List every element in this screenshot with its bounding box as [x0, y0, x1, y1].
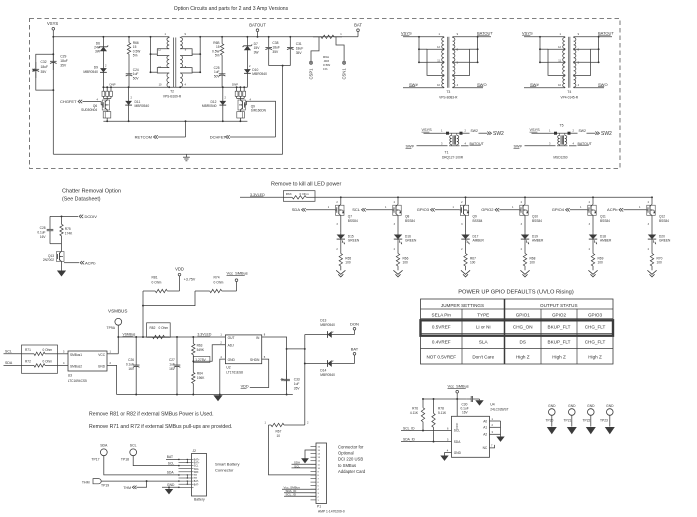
svg-text:GREEN: GREEN	[659, 239, 671, 243]
svg-text:A0: A0	[483, 419, 487, 423]
wire diode node down to R67	[304, 349, 306, 425]
transistor Q12	[650, 204, 652, 206]
diode D9	[102, 54, 104, 67]
wire Q6 source chain	[102, 97, 104, 99]
wire VSMBus line	[118, 336, 225, 338]
svg-text:C29: C29	[60, 55, 66, 59]
svg-text:OUT: OUT	[228, 336, 235, 340]
svg-text:SDA: SDA	[167, 471, 175, 475]
svg-text:CHG_FLT: CHG_FLT	[585, 339, 606, 344]
wire left rail	[52, 37, 54, 154]
svg-text:18uF: 18uF	[41, 65, 49, 69]
LED D20	[651, 216, 653, 233]
svg-text:NOT 0.5VREF: NOT 0.5VREF	[426, 355, 456, 360]
svg-text:24LC02B/ST: 24LC02B/ST	[490, 408, 508, 412]
svg-text:T4: T4	[567, 90, 571, 94]
svg-text:R81: R81	[152, 276, 158, 280]
svg-text:BKUP_FLT: BKUP_FLT	[548, 339, 571, 344]
svg-text:BSS84: BSS84	[600, 219, 610, 223]
svg-text:GND: GND	[228, 358, 236, 362]
svg-text:SCL: SCL	[5, 350, 12, 354]
resistor R67	[465, 241, 467, 251]
svg-text:SDA: SDA	[100, 443, 108, 447]
svg-text:Li or Ni: Li or Ni	[476, 325, 491, 330]
svg-text:100: 100	[657, 261, 663, 265]
capacitor C28	[49, 216, 51, 229]
wire branch Q8 drop	[397, 196, 399, 198]
capacitor C38	[268, 36, 270, 38]
svg-text:BATOUT: BATOUT	[477, 30, 493, 35]
svg-text:50V: 50V	[133, 76, 140, 80]
zener diode D7	[246, 36, 248, 38]
wire U2 SHDN to VDD	[250, 359, 269, 387]
option circuits dashed border box	[30, 19, 621, 169]
svg-text:18uF: 18uF	[60, 59, 68, 63]
svg-text:3.3VLED: 3.3VLED	[250, 193, 265, 197]
wire U3 VCC	[107, 353, 118, 355]
capacitor C26	[135, 336, 137, 338]
svg-text:174K: 174K	[65, 232, 73, 236]
svg-text:P1: P1	[317, 504, 321, 508]
resistor R63 divider top	[192, 336, 194, 338]
svg-text:DNP: DNP	[232, 83, 238, 87]
svg-text:SW2: SW2	[493, 131, 504, 137]
svg-text:GPIO1: GPIO1	[516, 313, 530, 318]
IC U3 LTC1694	[58, 353, 69, 355]
DNP resistor box below Q9	[239, 110, 241, 112]
capacitor C33	[286, 370, 288, 379]
resistor R67 series	[269, 424, 272, 426]
svg-text:High Z: High Z	[516, 355, 530, 360]
IC U4 24LC02B	[452, 416, 490, 457]
wire top rail right	[181, 36, 358, 38]
svg-text:VDD: VDD	[241, 385, 249, 389]
svg-text:VSMBus: VSMBus	[123, 333, 136, 337]
svg-text:TYPE: TYPE	[477, 313, 489, 318]
svg-text:NC: NC	[483, 446, 488, 450]
table highlight thick border row 1	[421, 320, 614, 335]
connector P1	[316, 443, 327, 504]
svg-text:T5: T5	[560, 124, 564, 128]
svg-text:POWER UP GPIO DEFAULTS (UVLO R: POWER UP GPIO DEFAULTS (UVLO Rising)	[458, 290, 574, 296]
svg-text:High Z: High Z	[588, 355, 602, 360]
svg-text:U2: U2	[226, 365, 230, 369]
svg-text:C32: C32	[41, 60, 47, 64]
svg-text:VP4-0145-R: VP4-0145-R	[561, 96, 579, 100]
svg-text:DON: DON	[350, 321, 359, 326]
svg-text:C26: C26	[128, 358, 134, 362]
svg-text:35V: 35V	[272, 50, 279, 54]
svg-text:R67: R67	[276, 430, 282, 434]
transistor Q11	[591, 204, 593, 206]
svg-text:4.11K: 4.11K	[410, 411, 419, 415]
capacitor C25	[221, 62, 223, 70]
wire DCHFET to Q9 gate	[246, 101, 275, 137]
svg-text:CHGFET: CHGFET	[60, 99, 77, 104]
svg-text:SLA: SLA	[479, 339, 489, 344]
node CSN1	[336, 37, 344, 61]
DNP resistor box below Q6	[106, 110, 108, 112]
ground arrow below rail	[213, 395, 222, 401]
svg-text:0.1uF: 0.1uF	[37, 231, 45, 235]
svg-text:R75: R75	[65, 227, 71, 231]
svg-text:SW#: SW#	[514, 144, 523, 148]
svg-text:100: 100	[530, 261, 536, 265]
wire GND rail	[117, 394, 293, 396]
svg-text:1uF: 1uF	[294, 382, 300, 386]
svg-text:BAT: BAT	[351, 346, 359, 351]
svg-text:18uF: 18uF	[296, 47, 304, 51]
svg-text:SW2: SW2	[601, 131, 612, 137]
wire bottom rail	[53, 153, 282, 155]
resistor R63 0 Ohm in box	[283, 191, 315, 202]
wire branch Q11 drop	[592, 196, 594, 198]
table grid	[421, 299, 614, 364]
svg-text:SDA: SDA	[292, 207, 301, 212]
svg-text:0.5VREF: 0.5VREF	[432, 325, 451, 330]
svg-text:GPIO2: GPIO2	[481, 207, 494, 212]
wire branch Q7 drop	[340, 196, 342, 198]
svg-text:SHDN: SHDN	[250, 358, 260, 362]
wire LED rail	[315, 196, 652, 198]
svg-text:SDA: SDA	[454, 440, 461, 444]
svg-text:R76: R76	[412, 407, 418, 411]
svg-text:GND: GND	[606, 404, 614, 408]
svg-text:2N7002: 2N7002	[43, 258, 54, 262]
wire DCDIV node	[50, 215, 78, 217]
svg-text:CHG_ON: CHG_ON	[513, 325, 533, 330]
svg-text:SDA_ID: SDA_ID	[403, 438, 416, 442]
svg-text:100: 100	[403, 261, 409, 265]
wire U4 NC pin	[490, 445, 495, 448]
svg-text:SCL: SCL	[352, 207, 361, 212]
svg-text:ACPb: ACPb	[607, 207, 618, 212]
svg-text:SIR160DN: SIR160DN	[251, 109, 267, 113]
capacitor C31	[289, 36, 291, 38]
svg-text:to SMBus: to SMBus	[338, 463, 356, 468]
wire R81 to VSMBus	[142, 291, 144, 337]
node 1.275V	[193, 356, 210, 362]
svg-text:AMBER: AMBER	[532, 239, 544, 243]
svg-text:U4: U4	[490, 402, 494, 406]
ground arrow below GND wire	[168, 486, 170, 488]
svg-text:35V: 35V	[296, 51, 303, 55]
svg-text:Battery: Battery	[194, 497, 205, 501]
svg-text:J2: J2	[193, 449, 197, 453]
svg-text:THM: THM	[123, 486, 131, 490]
capacitor C30	[466, 398, 471, 400]
svg-text:35V: 35V	[294, 386, 301, 390]
ground below R66	[397, 269, 399, 271]
svg-text:35V: 35V	[41, 70, 48, 74]
svg-text:VSYS: VSYS	[422, 128, 433, 132]
svg-text:SW2: SW2	[579, 129, 586, 133]
resistor R6B	[221, 36, 223, 38]
svg-text:MBR0540: MBR0540	[202, 104, 217, 108]
wire U2 IN	[262, 337, 287, 395]
svg-text:SW2: SW2	[471, 129, 478, 133]
svg-text:DNP: DNP	[110, 83, 116, 87]
svg-text:VSYS: VSYS	[47, 21, 58, 26]
svg-text:0 Ohm: 0 Ohm	[43, 359, 53, 363]
svg-text:CHG_FLT: CHG_FLT	[585, 325, 606, 330]
svg-text:OUTPUT STATUS: OUTPUT STATUS	[540, 303, 578, 308]
svg-text:BAT: BAT	[354, 23, 362, 28]
diode D12	[222, 86, 224, 88]
transistor Q7	[339, 204, 341, 206]
svg-text:R63: R63	[286, 192, 292, 196]
svg-text:GPIO4: GPIO4	[552, 207, 565, 212]
transistor Q10	[523, 204, 525, 206]
svg-text:BSS84: BSS84	[348, 219, 358, 223]
svg-text:VPS-B083-R: VPS-B083-R	[439, 96, 458, 100]
svg-text:R64: R64	[197, 372, 203, 376]
wire U4 GND pin	[445, 453, 452, 456]
svg-text:R78: R78	[438, 407, 444, 411]
svg-text:AMP 1-1470209-0: AMP 1-1470209-0	[318, 509, 345, 513]
svg-text:T1: T1	[445, 151, 449, 155]
svg-text:0 Ohm: 0 Ohm	[152, 281, 162, 285]
svg-text:TP22: TP22	[583, 419, 591, 423]
resistor R64 divider bottom	[192, 361, 194, 372]
svg-text:R63: R63	[197, 344, 203, 348]
svg-text:SCL_ID: SCL_ID	[403, 427, 415, 431]
svg-text:VPS-B169-R: VPS-B169-R	[163, 95, 182, 99]
svg-text:DRQ127-100R: DRQ127-100R	[442, 156, 464, 160]
svg-text:Remove R81 or R82 if external: Remove R81 or R82 if external SMBus Powe…	[89, 412, 214, 418]
svg-text:100: 100	[345, 261, 351, 265]
svg-text:LT1761ES8: LT1761ES8	[226, 370, 243, 374]
svg-text:GND: GND	[167, 483, 175, 487]
resistor R75	[61, 216, 63, 224]
svg-text:BSS84: BSS84	[473, 219, 483, 223]
svg-text:BATOUT: BATOUT	[470, 142, 485, 146]
svg-text:18uF: 18uF	[272, 46, 280, 50]
svg-text:BATOUT: BATOUT	[578, 142, 593, 146]
svg-text:GPIO3: GPIO3	[588, 313, 602, 318]
svg-text:DCHFET: DCHFET	[210, 135, 227, 140]
transformer T2	[150, 36, 152, 38]
svg-text:5%: 5%	[215, 54, 220, 58]
svg-text:Smart Battery: Smart Battery	[215, 461, 239, 466]
svg-text:Addapter Card: Addapter Card	[338, 469, 366, 474]
resistor R66	[128, 36, 130, 38]
svg-text:TH: TH	[194, 475, 197, 477]
node CSP1	[311, 37, 319, 61]
svg-text:SWO: SWO	[598, 82, 608, 87]
capacitor C27	[176, 336, 178, 338]
svg-text:Remove R71 and R72 if external: Remove R71 and R72 if external SMBus pul…	[89, 424, 232, 430]
svg-text:SBX: SBX	[194, 472, 199, 474]
ground below R70	[651, 269, 653, 271]
svg-text:SCL: SCL	[194, 466, 199, 468]
svg-text:AMBER: AMBER	[600, 239, 612, 243]
svg-text:GREEN: GREEN	[348, 239, 360, 243]
resistor R68	[524, 241, 526, 251]
svg-text:Vcc_SMBus: Vcc_SMBus	[227, 270, 248, 275]
diode D14	[304, 363, 306, 365]
svg-text:SELA Pin: SELA Pin	[432, 313, 452, 318]
svg-text:(See Datasheet): (See Datasheet)	[62, 196, 101, 202]
svg-text:DS: DS	[520, 339, 526, 344]
svg-text:R72: R72	[25, 359, 31, 363]
svg-text:BAT+: BAT+	[194, 459, 200, 462]
svg-text:BATOUT: BATOUT	[249, 23, 266, 28]
wire R74 to bus	[143, 291, 195, 306]
svg-text:LTC1694CS5: LTC1694CS5	[68, 379, 87, 383]
svg-text:SDA: SDA	[194, 468, 199, 471]
svg-text:DCDIV: DCDIV	[85, 214, 98, 219]
svg-text:Optional: Optional	[338, 451, 354, 456]
svg-text:SCL: SCL	[130, 443, 137, 447]
svg-text:R82: R82	[150, 326, 156, 330]
wire top rail left	[53, 36, 169, 38]
wire ADJ to divider	[193, 345, 225, 362]
wire branch Q10 drop	[524, 196, 526, 198]
svg-text:GND: GND	[454, 451, 462, 455]
svg-text:BATOUT: BATOUT	[598, 30, 614, 35]
wire U4 A0 A1 A2 to ground	[490, 420, 501, 422]
svg-text:GND: GND	[568, 404, 576, 408]
svg-text:C27: C27	[169, 358, 175, 362]
svg-text:0 Ohm: 0 Ohm	[159, 326, 169, 330]
svg-text:VSYS: VSYS	[522, 30, 533, 35]
svg-text:R74: R74	[214, 276, 220, 280]
svg-text:Chatter Removal Option: Chatter Removal Option	[62, 189, 121, 195]
svg-text:VSYS: VSYS	[401, 30, 412, 35]
svg-text:549K: 549K	[197, 348, 205, 352]
svg-text:1%: 1%	[323, 67, 328, 71]
capacitor C24	[128, 60, 130, 70]
svg-text:SDA: SDA	[5, 361, 13, 365]
wire divider bottom	[50, 243, 62, 245]
svg-text:0.1uF: 0.1uF	[126, 363, 134, 367]
svg-text:C38: C38	[272, 41, 278, 45]
svg-text:SUD50N04: SUD50N04	[81, 108, 97, 112]
svg-text:BSS84: BSS84	[659, 219, 669, 223]
wire IN node to diode node	[287, 348, 305, 350]
resistor R69	[592, 241, 594, 251]
LED D17	[465, 216, 467, 233]
resistor R66	[397, 241, 399, 251]
svg-text:196K: 196K	[197, 376, 205, 380]
wire Q13 to ACPb	[64, 262, 79, 264]
resistor R70	[651, 241, 653, 251]
svg-text:C31: C31	[296, 42, 302, 46]
LED D19	[524, 216, 526, 233]
op-amp U2 LDO	[225, 335, 261, 364]
svg-text:SCL_ID: SCL_ID	[286, 493, 297, 497]
transistor Q6	[106, 98, 108, 100]
wire C38 C31 bottom	[269, 65, 291, 67]
svg-text:Vcc_SMBus: Vcc_SMBus	[448, 383, 469, 388]
svg-text:GPIO3: GPIO3	[417, 207, 430, 212]
svg-text:D9: D9	[94, 66, 98, 70]
svg-text:0 Ohm: 0 Ohm	[214, 281, 224, 285]
wire SW rail	[103, 86, 247, 88]
svg-text:VSYS: VSYS	[530, 128, 541, 132]
svg-text:16V: 16V	[128, 367, 135, 371]
ground below R67	[465, 269, 467, 271]
wire U2 GND down	[220, 359, 226, 394]
svg-text:GPIO2: GPIO2	[552, 313, 566, 318]
wire THM branch to THM terminal	[146, 480, 148, 482]
wire branch Q9 drop	[465, 196, 467, 198]
ground below R69	[592, 269, 594, 271]
diode D10	[246, 53, 248, 68]
svg-text:Remove to kill all LED power: Remove to kill all LED power	[271, 182, 341, 188]
svg-text:CSP1: CSP1	[308, 68, 313, 80]
svg-text:High Z: High Z	[552, 355, 566, 360]
LED D18	[592, 216, 594, 233]
svg-text:16V: 16V	[462, 411, 469, 415]
svg-text:+3.75V: +3.75V	[184, 278, 196, 282]
svg-text:TP20: TP20	[546, 419, 554, 423]
svg-text:35V: 35V	[60, 64, 67, 68]
svg-text:5.11K: 5.11K	[438, 411, 447, 415]
svg-text:VDD: VDD	[175, 266, 184, 271]
svg-text:0 Ohm: 0 Ohm	[43, 348, 53, 352]
svg-text:SWO: SWO	[477, 82, 487, 87]
svg-text:TP9A: TP9A	[107, 326, 116, 330]
svg-text:BAT-: BAT-	[194, 483, 199, 486]
svg-text:Don't Care: Don't Care	[472, 355, 494, 360]
svg-text:5%: 5%	[133, 54, 138, 58]
transistor Q8	[396, 204, 398, 206]
svg-text:D14: D14	[320, 368, 326, 372]
svg-text:3.3VLED: 3.3VLED	[197, 333, 211, 337]
svg-text:SW#: SW#	[409, 82, 418, 87]
resistor R65	[340, 241, 342, 251]
ground below Q13	[61, 262, 63, 271]
transistor Q9	[464, 204, 466, 206]
ground arrow after C30	[478, 398, 480, 400]
svg-text:T3: T3	[446, 90, 450, 94]
svg-text:MBR0540: MBR0540	[83, 70, 98, 74]
terminal DCDIV	[79, 215, 81, 218]
resistor R82 0 Ohm in box	[147, 323, 171, 338]
zener diode D6	[102, 36, 104, 38]
svg-text:GND: GND	[98, 364, 106, 368]
sense resistor R6A	[313, 36, 321, 38]
terminal ACPb	[80, 261, 82, 264]
svg-text:TH: TH	[194, 478, 197, 480]
wire R67 down to P1	[269, 425, 317, 475]
resistor R71 R72 box	[22, 345, 58, 373]
ground below R65	[340, 269, 342, 271]
svg-text:TP19: TP19	[101, 484, 109, 488]
svg-text:10: 10	[277, 434, 281, 438]
svg-text:Connector: Connector	[215, 467, 234, 472]
svg-text:GND: GND	[548, 404, 556, 408]
svg-text:100: 100	[470, 261, 476, 265]
svg-text:VSMBUS: VSMBUS	[108, 309, 127, 314]
svg-text:Connector for: Connector for	[338, 444, 364, 449]
wire RETCOM rail	[103, 120, 247, 122]
svg-text:C33: C33	[294, 377, 300, 381]
svg-text:U3: U3	[68, 374, 72, 378]
svg-text:Option Circuits and parts for: Option Circuits and parts for 2 and 3 Am…	[174, 6, 289, 12]
svg-text:CSN1: CSN1	[341, 68, 346, 80]
svg-text:MSD1260: MSD1260	[553, 156, 567, 160]
svg-text:SCL: SCL	[168, 461, 175, 465]
svg-text:BSS84: BSS84	[405, 219, 415, 223]
svg-text:TP21: TP21	[564, 419, 572, 423]
svg-text:MBR0540: MBR0540	[252, 72, 267, 76]
svg-text:BKUP_FLT: BKUP_FLT	[548, 325, 571, 330]
svg-text:100: 100	[598, 261, 604, 265]
svg-text:ADJ: ADJ	[228, 344, 235, 348]
